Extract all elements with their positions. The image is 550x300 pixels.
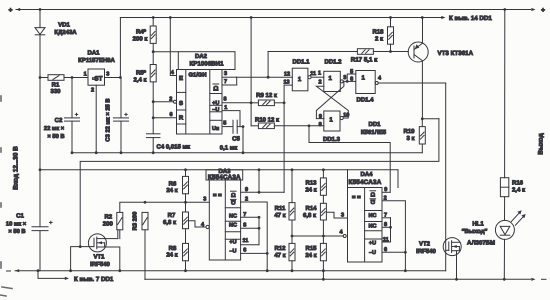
svg-text:6,8 к: 6,8 к (303, 212, 316, 219)
junction: line A / C5 (242, 151, 245, 154)
inversion circle: DD1.1 output (308, 76, 311, 79)
resistor R4 (150, 26, 156, 43)
svg-text:3: 3 (106, 72, 109, 78)
svg-text:NC: NC (369, 213, 377, 219)
svg-text:3: 3 (203, 197, 206, 203)
timer DA2 main box (177, 70, 223, 135)
svg-text:R14: R14 (305, 205, 317, 212)
DA2 right cell line out/+U (210, 93, 222, 95)
wire: stub from minus rail down to K vyv 7 DD1 arrow (38, 271, 65, 279)
LED HL1 AL307BM (495, 220, 514, 239)
svg-text:R5*: R5* (136, 70, 147, 77)
wire: DA4 pin2 output right and down to rail (382, 201, 405, 271)
resistor R1 (48, 75, 64, 81)
svg-text:9: 9 (319, 114, 322, 120)
wire: 9V riser to DA2 pin4 (E) (170, 18, 176, 76)
DA3 right cell lines (225, 207, 240, 209)
wire: DA3 7-8-11 tie vertical (258, 217, 260, 244)
junction: line A / C2 (71, 151, 74, 154)
svg-text:DA4: DA4 (360, 171, 373, 178)
wire: riser from DA1 output node up to 9V rail at x=120.4 (119, 18, 121, 78)
junction: minus rail / VT1 gate branch x=70.6 (69, 269, 72, 272)
svg-text:R15: R15 (305, 245, 317, 252)
label: + mark of C2 (75, 113, 77, 115)
svg-text:+U: +U (369, 241, 376, 247)
junction: C2 top node (71, 76, 74, 79)
svg-text:3 к: 3 к (406, 135, 414, 142)
wire: VT3 emitter up to 9V rail (422, 18, 424, 44)
junction: DA4 pin8 tie (389, 226, 392, 229)
junction: 9V rail / DA2 pin8 riser (250, 16, 253, 19)
svg-text:+: + (541, 7, 545, 14)
svg-text:DD1.4: DD1.4 (356, 97, 374, 104)
capacitor C2 (65, 117, 80, 119)
wire: +9V rail (y=17.5) from DA1 output riser to K vyv.14 DD1 (120, 17, 441, 19)
svg-text:C2: C2 (55, 117, 63, 124)
svg-text:▪ST: ▪ST (92, 75, 102, 82)
wire: R11 top from line C (291, 170, 293, 203)
logic gate DD1.3 box (324, 111, 340, 131)
resistor R10 (258, 123, 274, 129)
svg-text:DD1.3: DD1.3 (323, 136, 341, 143)
svg-text:R3 200: R3 200 (131, 212, 138, 231)
svg-text:24 к: 24 к (166, 252, 177, 259)
wire: R13 bottom to R14 top (322, 195, 324, 203)
wire: branch up to DD1.4 input 5 (347, 74, 356, 81)
wire: R19 top stub (421, 119, 423, 127)
svg-text:DD1.2: DD1.2 (324, 59, 342, 66)
wire: R4/R5 node to DA2 label box (153, 51, 178, 53)
svg-text:–U: –U (229, 249, 236, 255)
wire: C2 top lead (71, 78, 73, 118)
svg-text:24 к: 24 к (305, 252, 316, 259)
resistor R6 (183, 176, 189, 193)
inversion circle: DD1.3 output (340, 116, 343, 119)
svg-text:6: 6 (243, 248, 246, 254)
junction: return line / right output rail (503, 278, 506, 281)
junction: DA4 pin6 / pin2 riser (404, 251, 407, 254)
wire: DD1.4 output right to VT2 gate column (378, 82, 446, 84)
svg-text:47 к: 47 к (274, 212, 285, 219)
svg-text:DA1: DA1 (87, 50, 100, 57)
svg-text:2,4 к: 2,4 к (512, 186, 525, 193)
svg-text:10 мк ×: 10 мк × (6, 220, 27, 227)
svg-text:+U: +U (212, 100, 219, 106)
wire: common line C y=169.8 comparator bus from x=40 (40, 169, 398, 171)
junction: line A / C4 (152, 151, 155, 154)
wire: C3 top lead (120, 78, 122, 118)
wire: R18 top to 9V rail (390, 18, 392, 27)
svg-text:К выв. 7 DD1: К выв. 7 DD1 (74, 276, 114, 283)
svg-text:Ω: Ω (231, 192, 236, 199)
wire: R18 bottom to base node (390, 44, 392, 51)
junction: return line / R15 column (322, 278, 325, 281)
wire: top +input rail (16, 9, 531, 11)
svg-text:DD1.1: DD1.1 (292, 59, 310, 66)
resistor R11 (289, 203, 295, 220)
resistor R18 (388, 27, 394, 44)
junction: R5 bottom / DA2 pin2 wire (152, 100, 155, 103)
svg-text:5: 5 (350, 69, 353, 75)
svg-text:G1/GN: G1/GN (188, 72, 206, 79)
wire: DA2 pin2 to timing node (153, 101, 173, 103)
op-amp/timer DA2 label box (178, 52, 235, 70)
wire: R17 right to VT3 base (373, 51, 408, 53)
svg-text:= =: = = (213, 193, 222, 199)
inversion circle: DA2 pin 2 (174, 100, 177, 103)
svg-text:3: 3 (224, 71, 227, 77)
svg-text:К554СА3А: К554СА3А (349, 179, 382, 186)
junction: line A / C3 (120, 151, 123, 154)
junction: minus rail / DA3 pin2-pin6 riser (266, 269, 269, 272)
junction: R6/R7 node on DA3 pin3 line (184, 201, 187, 204)
wire: R9/R10 left tie riser (250, 18, 252, 126)
wire: DA2 pin1 to C5 node (222, 111, 240, 127)
resistor R8 (183, 243, 189, 260)
wire: cross diagonal DD1.2-out to DD1.3 input 9 (316, 81, 344, 118)
svg-text:NC: NC (229, 222, 237, 228)
DA4 right cell lines (365, 210, 382, 212)
junction: pin7 tie (258, 216, 261, 219)
wire: DA3 pin8 stub (241, 227, 259, 229)
wire: scan artifact marks left edge (0, 96, 12, 296)
resistor R9 (258, 100, 274, 106)
wire: x=40 down to line C junction (39, 78, 41, 170)
LED emission arrows (511, 212, 520, 222)
terminal arrow: bottom-left input - (15, 269, 19, 272)
wire: branch straight to DD1.4 input 6 (347, 80, 356, 82)
svg-text:Выход: Выход (538, 133, 545, 154)
wire: R6 bottom to R7 top (185, 194, 187, 212)
comparator DA3 main box (209, 180, 240, 260)
wire: DA4 pin8 stub (382, 226, 391, 228)
junction: R4/R5/DA2 label box node (152, 50, 155, 53)
DA2 right cell line -U bottom (210, 111, 222, 113)
wire: R15 bottom through rail to return line (322, 261, 324, 280)
DA2 left cell line S/R (177, 109, 186, 111)
svg-text:8: 8 (243, 223, 246, 229)
svg-text:Вход 12...30 В: Вход 12...30 В (13, 146, 20, 190)
svg-text:VT2: VT2 (419, 240, 431, 247)
svg-text:× 50 В: × 50 В (8, 228, 25, 235)
svg-text:7: 7 (224, 79, 227, 85)
wire: DA2 pin7 stub (222, 84, 237, 86)
junction: top rail / right output rail at x=505 (503, 8, 506, 11)
comparator DA3 label box (206, 170, 243, 180)
svg-text:VT1: VT1 (93, 254, 105, 261)
svg-text:Uн: Uн (212, 126, 219, 132)
wire: DA4 pin7 stub (382, 217, 391, 219)
junction: R14-R15 link / DA4 pin4 line (322, 235, 325, 238)
wire: R12 bottom to minus rail (291, 261, 293, 271)
svg-text:+: + (9, 7, 13, 14)
svg-text:22 мк ×: 22 мк × (44, 125, 65, 132)
DA2 right cell line Un top (210, 119, 222, 121)
wire: DA2 pin8 to R9 node (222, 102, 251, 104)
wire: DA2 pin5 to C5 (222, 126, 233, 128)
svg-text:2: 2 (91, 88, 94, 94)
wire: R10 left stub (251, 125, 258, 127)
junction: R3 top (144, 201, 147, 204)
junction: line C / DA3 strobe riser (258, 168, 261, 171)
wire: VT3 collector down to R19 node (421, 61, 423, 119)
junction: R9 left node (250, 101, 253, 104)
DA2 internal divider right column (209, 70, 211, 135)
svg-text:6: 6 (169, 112, 172, 118)
wire: R6 top to line C (185, 170, 187, 177)
svg-text:E: E (179, 75, 183, 82)
wire: DD1.2 output to DD1.4 inputs branch node (343, 80, 347, 82)
transistor VT2 IRF540 (N-MOSFET) (443, 238, 461, 256)
svg-text:2,4 к: 2,4 к (133, 77, 146, 84)
terminal arrow: top-right output + (531, 8, 535, 11)
wire: DA3 pin3 line y=202.3 from R2 top (120, 202, 210, 212)
wire: DA4 7-8-11 tie vertical (390, 218, 392, 242)
comparator DA4 label box (347, 170, 349, 188)
svg-text:+U: +U (229, 239, 236, 245)
svg-text:Ω: Ω (231, 199, 236, 206)
svg-text:КР1006ВИ1: КР1006ВИ1 (189, 61, 224, 68)
wire: R14 bottom to R15 top (322, 220, 324, 243)
wire: R9 left stub (251, 102, 258, 104)
svg-text:R4*: R4* (136, 29, 147, 36)
junction: R17/R18 node at VT3 base (389, 50, 392, 53)
svg-text:1: 1 (318, 71, 321, 77)
capacitor C1 (32, 226, 48, 228)
resistor R3 (142, 212, 148, 229)
junction: pin9 wire / strobe riser (258, 191, 261, 194)
wire: R19 bottom to line A right end (421, 144, 423, 153)
wire: x=40 down to C1 (39, 170, 41, 227)
svg-text:11: 11 (242, 238, 248, 244)
svg-text:47 к: 47 к (274, 252, 285, 259)
DA2 left cell line under R (177, 123, 186, 125)
resistor R17 (357, 49, 373, 55)
svg-text:NC: NC (369, 224, 377, 230)
junction: pin8 tie (258, 227, 261, 230)
svg-text:6: 6 (350, 77, 353, 83)
svg-text:12: 12 (284, 72, 290, 78)
resistor R12 (289, 243, 295, 260)
svg-text:2: 2 (245, 196, 248, 202)
svg-text:R1: R1 (52, 82, 60, 89)
terminal arrow: bottom-right output - (531, 278, 535, 281)
resistor R19 (419, 127, 425, 144)
wire: R7 tap to DA3 pin 4 (189, 221, 206, 227)
wire: VT1 gate left to ground and line B riser (71, 247, 94, 271)
junction: pin6 / pin2 riser (266, 252, 269, 255)
wire: R5 bottom to DA2 S pin node (152, 82, 154, 102)
wire: C4 bottom to line A (152, 138, 154, 153)
wire: strobe branch x=309 down and right to DA4 pin 9 (309, 126, 390, 193)
wire: R9 right to DD1.1 pin13 riser (274, 102, 284, 104)
junction: R11/R12 node to DA4 pin4 (291, 235, 294, 238)
svg-text:R12: R12 (274, 245, 286, 252)
terminal arrow: to pin 7 DD1 (65, 277, 69, 280)
resistor R5 (150, 65, 156, 82)
capacitor C3 (114, 117, 129, 119)
label: + mark of C3 (125, 113, 127, 115)
svg-text:R2: R2 (104, 213, 112, 220)
svg-text:R19: R19 (403, 128, 415, 135)
wire: DA2 pins 3-7 tie (236, 77, 238, 85)
svg-text:5: 5 (223, 121, 226, 127)
junction: x=40 / comparator common line C (39, 168, 42, 171)
svg-text:8: 8 (319, 122, 322, 128)
svg-text:8: 8 (223, 97, 226, 103)
wire: DA2 output to DD1.1 input 12 (237, 76, 293, 78)
wire: VT1 source to minus rail (105, 247, 120, 271)
wire: DD1.1 input 13 stub (284, 84, 292, 86)
resistor R16 (500, 178, 508, 197)
svg-text:HL1: HL1 (472, 221, 484, 228)
svg-text:R8: R8 (169, 245, 177, 252)
wire: right output rail x=504.5 from top rail to return line (504, 10, 506, 178)
svg-text:АЛ307БМ: АЛ307БМ (467, 240, 495, 247)
svg-text:11: 11 (310, 71, 316, 77)
wire: DA3 pin7 stub (241, 216, 259, 218)
wire: R10 right to DD1.3 input 8 (274, 125, 323, 127)
junction: 9V rail / VT3 emitter (421, 16, 424, 19)
junction: VT3 collector / R19 / line B riser (421, 117, 424, 120)
junction: 9V rail / R4 top (152, 16, 155, 19)
wire: R14 tap to DA4 pin 3 (326, 212, 347, 218)
svg-text:VT3 КТ361А: VT3 КТ361А (438, 50, 474, 57)
wire: VD1 cathode down to R1 node (39, 35, 41, 78)
wire: R17 left feed (268, 51, 357, 53)
wire: collector node right to line B riser (422, 118, 439, 120)
svg-text:R6: R6 (169, 180, 177, 187)
svg-text:1: 1 (224, 105, 227, 111)
svg-text:3: 3 (341, 212, 344, 218)
wire: cross diagonal DD1.3-out to DD1.2 input 2 (316, 86, 348, 118)
wire: DA4 pin11 stub (382, 241, 391, 243)
wire: C3 bottom to common line A (120, 121, 122, 153)
junction: DA1 output / C3 / 9V riser (119, 76, 122, 79)
wire: C2 bottom to common line A (71, 121, 73, 153)
svg-text:NC: NC (229, 213, 237, 219)
terminal arrow: to pin 14 DD1 (441, 16, 445, 19)
wire: R1 right to DA1 pin1, junction with C2 (64, 77, 88, 79)
wire: common line A y=152.7 (C2,DA1-2,C3,C4,C5,R19 net) (72, 152, 422, 154)
wire: DA3 strobe riser from line C to pin9 wire (258, 170, 260, 193)
wire: DA2 pin3 stub (222, 76, 237, 78)
svg-text:330: 330 (50, 88, 61, 95)
wire: timing node down to R pin junction (152, 102, 154, 118)
wire: DA4 pin6 stub to pin2 riser (382, 251, 405, 253)
wire: DD1.1 output to DD1.2 input 1 (311, 76, 324, 78)
svg-text:2 к: 2 к (375, 35, 383, 42)
svg-text:C4 0,015 мк: C4 0,015 мк (157, 143, 190, 150)
svg-text:VD1: VD1 (58, 21, 70, 28)
svg-text:R10 12 к: R10 12 к (255, 116, 279, 123)
wire: bottom minus rail (15, 270, 446, 272)
voltage regulator DA1 KR1157EN9A box (88, 69, 105, 85)
transistor VT1 IRF540 (N-MOSFET) (88, 234, 106, 252)
wire: R1 node to R1 left (40, 77, 48, 79)
svg-text:DD1: DD1 (368, 121, 381, 128)
svg-text:DA2: DA2 (195, 53, 208, 60)
junction: R9 right / riser to DD1.1-13 and DA3-9 (283, 101, 286, 104)
resistor R13 (320, 178, 326, 195)
logic gate DD1.1 box (292, 68, 308, 91)
label: + mark of C1 (50, 222, 53, 224)
svg-text:= =: = = (352, 195, 361, 201)
junction: minus rail / DA4 pin2-pin6 riser (404, 269, 407, 272)
capacitor C5 (232, 120, 234, 133)
wire: line B y=161.4 VT1 gate to VT3 collector net (80, 119, 439, 247)
svg-text:К выв. 14 DD1: К выв. 14 DD1 (449, 15, 492, 22)
wire: C5 node down to line A (242, 127, 244, 153)
inversion circle: DA4 pin 4 (343, 235, 346, 238)
DA2 internal divider left column (185, 70, 187, 135)
svg-text:R18: R18 (372, 28, 384, 35)
inversion circle: DA3 pin 4 (206, 225, 209, 228)
DA4 internal divider (364, 188, 366, 263)
svg-text:200: 200 (103, 220, 114, 227)
label: - (output minus, right) (542, 278, 547, 280)
wire: DA1 pin2 down to common line A (95, 85, 97, 153)
inversion circle: DD1.4 output (375, 82, 378, 85)
junction: minus rail / R12 bottom (291, 269, 294, 272)
wire: R3 bottom down to return line (144, 230, 146, 279)
junction: DD1.2 out / DD1.4 inputs / cross branch (346, 80, 349, 83)
svg-text:R17 5,1 к: R17 5,1 к (351, 57, 378, 64)
svg-text:Ω: Ω (213, 86, 218, 93)
junction: line A / DA1 pin2 (95, 151, 98, 154)
svg-text:2: 2 (318, 79, 321, 85)
svg-text:“Выход”: “Выход” (461, 228, 487, 235)
DA2 right cell line +U/-U (210, 104, 222, 106)
svg-text:–U: –U (369, 250, 376, 256)
junction: C5/pin1 node (242, 125, 245, 128)
svg-text:К561ЛЕ5: К561ЛЕ5 (361, 129, 387, 136)
logic gate DD1.4 box (356, 71, 375, 94)
svg-text:24 к: 24 к (305, 186, 316, 193)
transistor VT3 KT361A (PNP) (408, 42, 428, 62)
wire: DA4 pin9 stub to strobe riser (382, 191, 390, 193)
capacitor C4 (146, 133, 160, 135)
svg-text:Ω: Ω (370, 198, 375, 205)
resistor R15 (320, 243, 326, 260)
junction: 9V rail / R18 top (389, 16, 392, 19)
junction: minus rail / R8 bottom (184, 269, 187, 272)
svg-text:6,8 к: 6,8 к (163, 219, 176, 226)
junction: line C / R13 top (322, 168, 325, 171)
svg-text:IRF540: IRF540 (416, 248, 436, 255)
svg-text:1: 1 (84, 72, 87, 78)
svg-text:КД243А: КД243А (54, 29, 77, 36)
DA3 internal divider (224, 180, 226, 260)
wire: VT2 gate lead from vertical column (446, 249, 449, 251)
wire: R8 bottom to minus rail (185, 261, 187, 271)
svg-text:R13: R13 (305, 179, 317, 186)
svg-text:Ω: Ω (370, 192, 375, 199)
wire: DA4 pin4 line from R11/R12 node (292, 235, 343, 237)
svg-text:C5: C5 (232, 136, 240, 143)
wire: C5 right to riser (237, 126, 243, 128)
wire: VT2 source down to return line (456, 251, 458, 280)
svg-text:S: S (179, 100, 183, 107)
wire: bottom output return line y=279.3 from R3 bottom to output minus (145, 278, 531, 280)
wire: R4 bottom to R4/R5 junction (152, 43, 154, 51)
svg-text:10: 10 (343, 112, 349, 118)
resistor R2 (117, 212, 123, 229)
svg-text:C1: C1 (16, 213, 24, 220)
wire: R7 bottom to R8 top (185, 229, 187, 244)
svg-text:R9 12 к: R9 12 к (256, 92, 277, 99)
svg-text:24 к: 24 к (166, 187, 177, 194)
